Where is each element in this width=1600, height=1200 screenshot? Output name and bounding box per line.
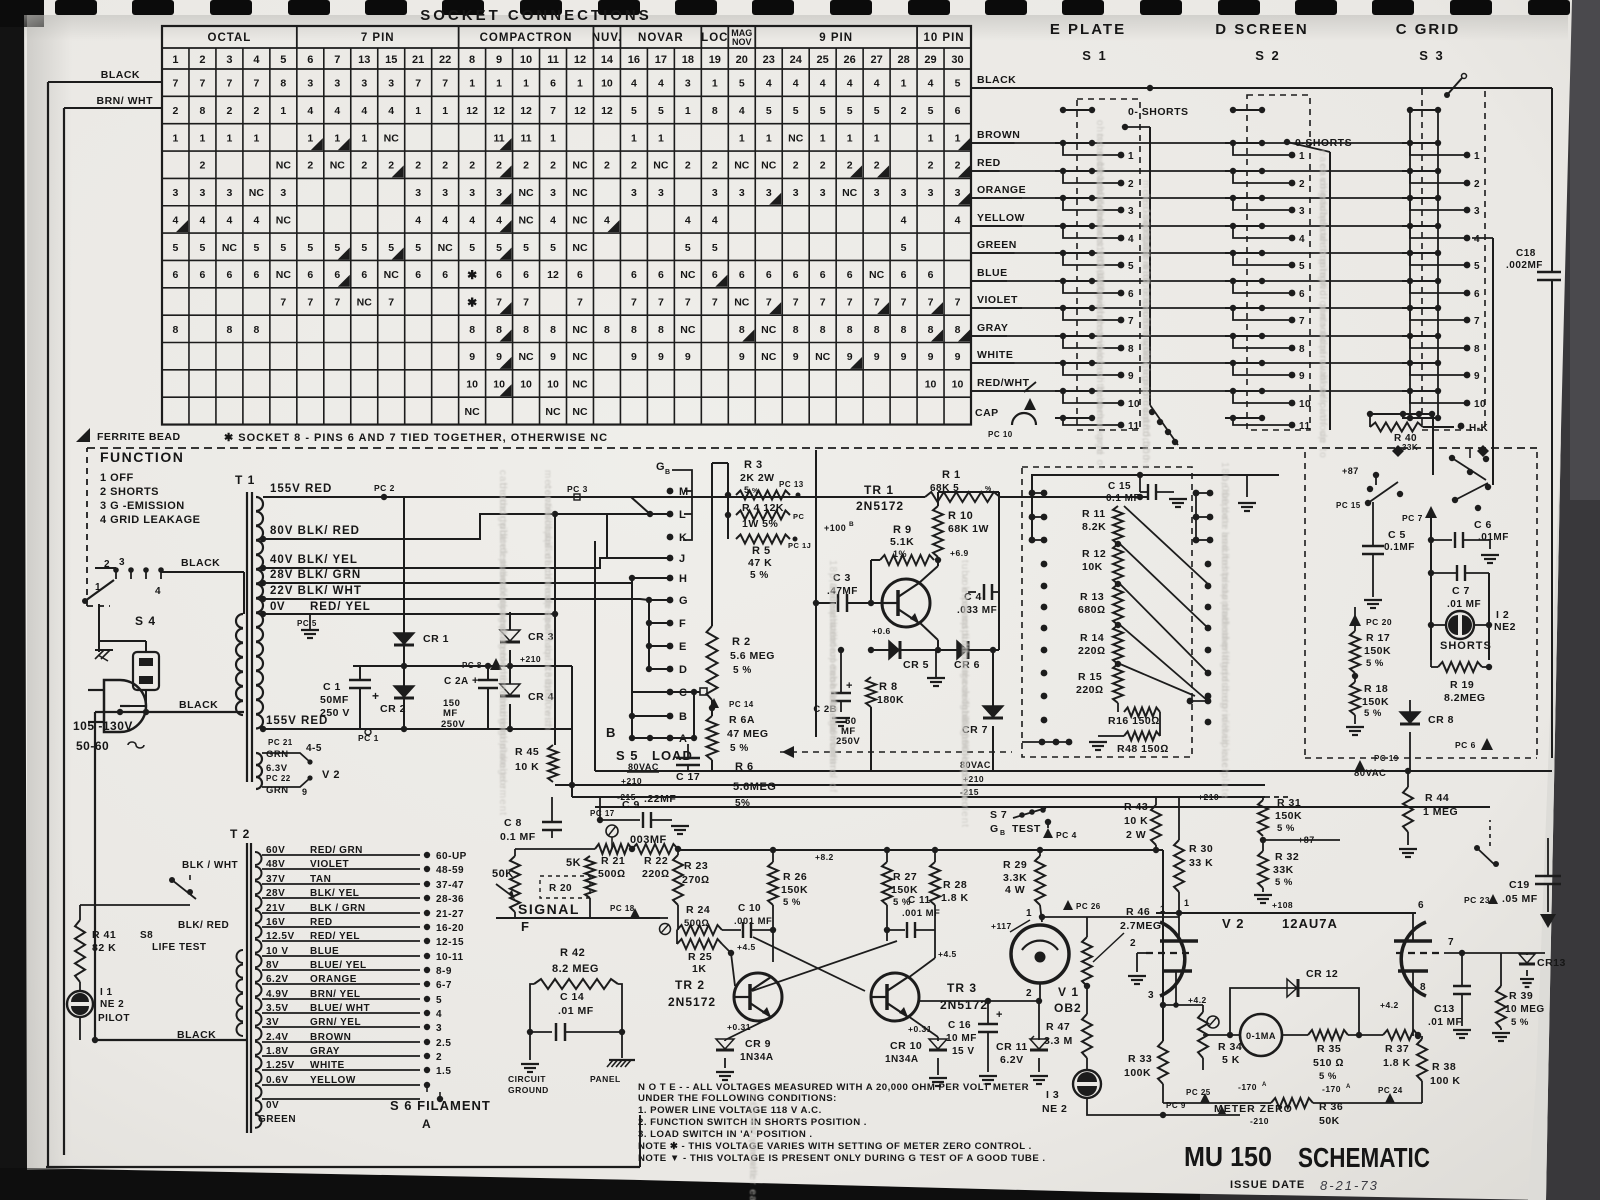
svg-text:150K: 150K: [781, 884, 808, 896]
svg-text:6: 6: [523, 269, 529, 281]
svg-text:PC 26: PC 26: [1076, 902, 1101, 911]
svg-text:R 3: R 3: [744, 459, 763, 471]
svg-text:BRN/ WHT: BRN/ WHT: [97, 95, 154, 107]
svg-text:GROUND: GROUND: [508, 1085, 549, 1095]
svg-text:R 25: R 25: [688, 951, 712, 963]
svg-text:2: 2: [415, 160, 421, 172]
svg-text:150K: 150K: [1275, 810, 1302, 822]
svg-text:BLK / WHT: BLK / WHT: [182, 860, 238, 871]
label PC19: [1355, 754, 1399, 770]
svg-text:1: 1: [658, 132, 664, 144]
svg-text:3: 3: [685, 78, 691, 90]
svg-text:+8.2: +8.2: [815, 852, 834, 862]
svg-text:28: 28: [897, 54, 909, 66]
svg-text:1.8 K: 1.8 K: [1383, 1057, 1411, 1069]
chassis ground at plug: [95, 650, 113, 661]
label 28V BLK/GRN: [270, 569, 361, 581]
resistor R46: [1082, 904, 1166, 989]
svg-text:12: 12: [547, 269, 559, 281]
svg-text:5: 5: [523, 242, 529, 254]
svg-text:7: 7: [766, 296, 772, 308]
svg-text:4: 4: [820, 78, 826, 90]
svg-text:4: 4: [631, 78, 637, 90]
label PC3: [567, 484, 588, 500]
wire tr1 base junction: [868, 560, 874, 606]
wire S5 wiper bus: [693, 692, 695, 738]
label PC23: [1464, 894, 1498, 905]
svg-text:3: 3: [631, 187, 637, 199]
meter 0-1MA: [1240, 1014, 1282, 1056]
svg-text:B: B: [606, 725, 616, 740]
svg-text:3: 3: [712, 187, 718, 199]
svg-text:2: 2: [820, 160, 826, 172]
svg-text:1: 1: [550, 132, 556, 144]
svg-text:NC: NC: [518, 214, 534, 226]
svg-text:PC 15: PC 15: [1336, 501, 1361, 510]
label SIGNAL F: [518, 901, 580, 934]
svg-text:BLACK: BLACK: [179, 699, 218, 711]
wire 50k pot: [515, 849, 595, 918]
svg-text:7: 7: [415, 78, 421, 90]
svg-text:NC: NC: [761, 160, 777, 172]
svg-text:.01MF: .01MF: [1478, 532, 1509, 543]
svg-text:PC 17: PC 17: [590, 809, 615, 818]
label S4: [135, 614, 156, 628]
svg-text:7: 7: [307, 296, 313, 308]
wires selector diagonals: [1120, 506, 1208, 701]
svg-text:3: 3: [820, 187, 826, 199]
resistor R27: [882, 850, 918, 941]
svg-text:7: 7: [200, 78, 206, 90]
svg-text:1: 1: [820, 132, 826, 144]
svg-text:1: 1: [847, 132, 853, 144]
label R11 8.2K: [1082, 508, 1106, 533]
svg-text:9: 9: [1299, 371, 1305, 382]
svg-text:BLACK: BLACK: [977, 74, 1016, 86]
svg-text:E PLATE: E PLATE: [1050, 21, 1126, 38]
svg-text:12: 12: [466, 105, 478, 117]
svg-text:S 1: S 1: [1082, 48, 1108, 63]
svg-text:10: 10: [952, 379, 964, 391]
svg-text:33 K: 33 K: [1189, 857, 1213, 869]
label issue date: [1230, 1178, 1379, 1193]
svg-text:6: 6: [226, 269, 232, 281]
diode CR1: [394, 633, 449, 645]
svg-text:PC 9: PC 9: [1166, 1101, 1186, 1110]
svg-text:6: 6: [766, 269, 772, 281]
svg-text:17: 17: [655, 54, 667, 66]
svg-text:C 7: C 7: [1452, 585, 1470, 597]
svg-text:2: 2: [928, 160, 934, 172]
svg-text:BLK/ RED: BLK/ RED: [178, 920, 229, 931]
wire S3 common: [1472, 238, 1493, 485]
switch S1 wiper chain: [1149, 405, 1178, 445]
wire S3 ladder: [1410, 110, 1438, 418]
resistor R23: [673, 849, 710, 905]
wire GRAY row: [971, 335, 1404, 337]
label PC20: [1349, 614, 1392, 627]
svg-text:8: 8: [604, 324, 610, 336]
svg-text:+108: +108: [1272, 900, 1293, 910]
resistor R24: [660, 904, 723, 935]
svg-text:3: 3: [901, 187, 907, 199]
svg-text:220Ω: 220Ω: [1078, 645, 1106, 657]
svg-text:6: 6: [955, 105, 961, 117]
svg-text:R 14: R 14: [1080, 632, 1104, 644]
svg-text:9: 9: [469, 351, 475, 363]
svg-text:10 MEG: 10 MEG: [1505, 1004, 1545, 1015]
capacitor C15: [1106, 472, 1187, 507]
svg-text:3: 3: [436, 1023, 442, 1034]
svg-text:155V RED: 155V RED: [266, 715, 328, 727]
svg-text:4: 4: [226, 214, 232, 226]
label R20 dashed: [540, 876, 590, 898]
svg-text:5: 5: [1474, 261, 1480, 272]
svg-text:25: 25: [817, 54, 829, 66]
svg-text:NC: NC: [276, 214, 292, 226]
svg-text:15 V: 15 V: [952, 1046, 975, 1057]
svg-text:NOV: NOV: [732, 37, 752, 47]
lamp I3 (NE2): [1042, 1058, 1101, 1115]
svg-text:+: +: [372, 689, 380, 703]
label 6.3V PC22 GRN: [266, 763, 340, 797]
wire 155v to R1: [631, 496, 925, 498]
svg-text:8: 8: [793, 324, 799, 336]
resistor R26: [768, 850, 808, 930]
svg-text:6: 6: [577, 269, 583, 281]
svg-text:1: 1: [415, 105, 421, 117]
svg-text:11: 11: [1128, 421, 1140, 432]
svg-text:2: 2: [388, 160, 394, 172]
diode CR6: [954, 641, 980, 671]
svg-text:5 %: 5 %: [1275, 877, 1293, 888]
svg-text:5 %: 5 %: [733, 665, 752, 676]
resistor R39: [1492, 953, 1545, 1041]
svg-text:A: A: [1262, 1082, 1267, 1088]
tube V2 right triode: [1394, 913, 1444, 996]
dashed rail top: [87, 447, 1537, 449]
svg-text:8: 8: [469, 54, 475, 66]
svg-text:4: 4: [604, 214, 610, 226]
svg-text:1K: 1K: [692, 963, 706, 975]
svg-text:3: 3: [1474, 206, 1480, 217]
switch S8 life test: [140, 860, 238, 953]
wire bottom left riser: [640, 1115, 648, 1167]
switch S1 bank contacts: [1055, 99, 1140, 432]
svg-text:2: 2: [496, 160, 502, 172]
label YELLOW (wire color): [971, 212, 1025, 226]
svg-text:6: 6: [361, 269, 367, 281]
svg-text:4: 4: [550, 214, 556, 226]
switch S2 bank contacts: [1225, 95, 1311, 432]
tube V1 (OB2): [991, 908, 1069, 999]
svg-text:2: 2: [685, 160, 691, 172]
diode CR10: [885, 1037, 947, 1086]
contact dots right column: [1187, 490, 1214, 726]
wire v1 pin2: [1039, 983, 1041, 1001]
svg-text:5: 5: [550, 242, 556, 254]
svg-text:1: 1: [631, 132, 637, 144]
svg-text:2: 2: [955, 160, 961, 172]
resistor R38: [1417, 1036, 1461, 1103]
resistor R30: [1174, 797, 1213, 916]
svg-text:GREEN: GREEN: [258, 1114, 296, 1125]
transformer T2 tap 21V: [262, 903, 464, 920]
svg-text:9: 9: [496, 351, 502, 363]
svg-text:4: 4: [334, 105, 340, 117]
svg-text:CR 10: CR 10: [890, 1040, 922, 1052]
svg-text:.001 MF: .001 MF: [734, 916, 772, 927]
svg-text:8.2K: 8.2K: [1082, 521, 1106, 533]
wire +210 rail: [555, 782, 1265, 788]
capacitor C4: [957, 584, 999, 616]
label WHITE (wire color): [971, 349, 1015, 363]
svg-text:6: 6: [307, 269, 313, 281]
svg-text:F: F: [521, 919, 529, 934]
svg-text:M: M: [679, 486, 689, 498]
wire plug to black bottom: [95, 690, 133, 717]
svg-text:R 44: R 44: [1425, 792, 1449, 804]
label +8.2: [815, 852, 834, 862]
resistor R3: [736, 459, 790, 500]
svg-text:7: 7: [631, 296, 637, 308]
heading E PLATE S1: [1050, 21, 1126, 63]
svg-text:R 24: R 24: [686, 904, 710, 916]
resistor R41: [75, 905, 190, 982]
label pin7: [1448, 937, 1454, 948]
svg-text:2: 2: [226, 105, 232, 117]
wire v2 pin7: [1444, 950, 1545, 956]
wire signal row: [496, 904, 660, 918]
svg-text:5.6 MEG: 5.6 MEG: [730, 650, 775, 662]
svg-text:6: 6: [820, 269, 826, 281]
svg-text:NOTE ▼ - THIS VOLTAGE IS PRESE: NOTE ▼ - THIS VOLTAGE IS PRESENT ONLY DU…: [638, 1153, 1046, 1164]
svg-text:29: 29: [924, 54, 936, 66]
svg-text:PANEL: PANEL: [590, 1074, 621, 1084]
svg-text:6: 6: [739, 269, 745, 281]
svg-text:4: 4: [200, 214, 206, 226]
svg-text:R48 150Ω: R48 150Ω: [1117, 743, 1169, 755]
svg-text:6: 6: [1418, 900, 1424, 911]
svg-text:PILOT: PILOT: [98, 1013, 130, 1024]
svg-text:R 28: R 28: [943, 879, 967, 891]
svg-text:ISSUE DATE: ISSUE DATE: [1230, 1179, 1305, 1191]
wire A row: [632, 735, 697, 741]
wire r17 branch: [1355, 675, 1410, 677]
svg-text:10: 10: [1128, 399, 1140, 410]
svg-text:1 MEG: 1 MEG: [1423, 806, 1458, 818]
svg-text:NC: NC: [680, 269, 696, 281]
label +100: [824, 521, 854, 533]
svg-text:PC 23: PC 23: [1464, 895, 1490, 905]
svg-text:5: 5: [685, 242, 691, 254]
capacitor C9: [600, 797, 689, 834]
label +108: [1272, 900, 1293, 910]
svg-text:7: 7: [173, 78, 179, 90]
svg-text:2: 2: [874, 160, 880, 172]
svg-text:10: 10: [1299, 399, 1311, 410]
svg-text:4: 4: [685, 214, 691, 226]
lamp I1 (NE2 pilot): [67, 982, 130, 1040]
svg-text:CR 12: CR 12: [1306, 968, 1338, 980]
svg-text:10 MF: 10 MF: [946, 1033, 977, 1044]
svg-text:5: 5: [766, 105, 772, 117]
svg-text:NC: NC: [384, 132, 400, 144]
svg-text:R 9: R 9: [893, 524, 912, 536]
svg-text:+87: +87: [1342, 466, 1359, 476]
svg-text:CR 2: CR 2: [380, 703, 406, 715]
label BLACK bottom left: [177, 1029, 216, 1041]
svg-text:24: 24: [790, 54, 803, 66]
wire R1 right: [1000, 494, 1147, 500]
resistor R25: [677, 930, 722, 975]
diode CR8: [1400, 676, 1454, 726]
svg-text:2: 2: [793, 160, 799, 172]
label MU 150 SCHEMATIC: [1184, 1141, 1430, 1173]
svg-text:-170: -170: [1322, 1084, 1341, 1094]
svg-text:5: 5: [847, 105, 853, 117]
transformer T2 tap 1.8V: [262, 1046, 442, 1063]
wire r2 top: [712, 463, 728, 626]
svg-text:+4.5: +4.5: [938, 949, 957, 959]
svg-text:R 35: R 35: [1317, 1043, 1341, 1055]
resistor R31: [1258, 797, 1302, 843]
svg-text:2N5172: 2N5172: [668, 995, 716, 1009]
svg-text:4: 4: [847, 78, 853, 90]
transformer T2 tap 16V: [262, 917, 464, 934]
svg-text:PC 10: PC 10: [988, 430, 1013, 439]
svg-text:1: 1: [523, 78, 529, 90]
svg-text:C 10: C 10: [738, 903, 761, 914]
label pin3: [1148, 990, 1154, 1001]
svg-text:.01 MF: .01 MF: [1447, 599, 1481, 610]
svg-text:NC: NC: [438, 242, 454, 254]
svg-text:A: A: [422, 1117, 431, 1131]
svg-text:2: 2: [550, 160, 556, 172]
svg-text:NC: NC: [572, 324, 588, 336]
svg-text:180K: 180K: [877, 694, 904, 706]
svg-text:PC 6: PC 6: [1455, 740, 1476, 750]
svg-text:9 PIN: 9 PIN: [819, 32, 853, 44]
svg-text:CR 11: CR 11: [996, 1041, 1028, 1053]
svg-text:each element: each element: [959, 756, 970, 828]
switch shorts wipers: [1365, 449, 1491, 511]
svg-text:NUV.: NUV.: [592, 32, 622, 44]
svg-text:3: 3: [1128, 206, 1134, 217]
svg-text:9: 9: [631, 351, 637, 363]
svg-text:plate plate: plate plate: [1219, 742, 1230, 799]
svg-text:40V BLK/ YEL: 40V BLK/ YEL: [270, 554, 358, 566]
svg-text:R 18: R 18: [1364, 683, 1388, 695]
svg-text:9: 9: [928, 351, 934, 363]
svg-text:12: 12: [520, 105, 532, 117]
svg-text:1.5: 1.5: [436, 1066, 451, 1077]
resistor R6: [700, 761, 776, 809]
wire black bottom: [95, 709, 244, 715]
transformer T2: [237, 843, 262, 1133]
svg-text:3: 3: [226, 187, 232, 199]
svg-text:2: 2: [253, 105, 259, 117]
label R14 220: [1078, 632, 1106, 657]
svg-text:50K: 50K: [1319, 1115, 1340, 1127]
svg-text:6-7: 6-7: [436, 980, 452, 991]
wire +100 line: [813, 450, 819, 737]
label 40V BLK/YEL: [270, 554, 358, 566]
svg-text:1N34A: 1N34A: [740, 1052, 774, 1063]
svg-text:NC: NC: [249, 187, 265, 199]
svg-text:S 2: S 2: [1255, 48, 1281, 63]
svg-text:V 2: V 2: [322, 769, 340, 781]
diode CR4: [500, 684, 554, 729]
transformer T1: [236, 492, 263, 782]
svg-text:2 SHORTS: 2 SHORTS: [100, 486, 159, 498]
svg-text:5: 5: [436, 995, 442, 1006]
svg-text:5: 5: [712, 242, 718, 254]
svg-text:4: 4: [955, 214, 961, 226]
svg-text:4 GRID LEAKAGE: 4 GRID LEAKAGE: [100, 514, 201, 526]
wire s7 to v1: [1047, 822, 1049, 849]
svg-text:R 29: R 29: [1003, 859, 1027, 871]
svg-text:5: 5: [415, 242, 421, 254]
svg-text:4: 4: [253, 54, 260, 66]
svg-text:7: 7: [388, 296, 394, 308]
socket connections table grid: [162, 26, 971, 425]
svg-text:10: 10: [520, 379, 532, 391]
svg-text:1: 1: [928, 132, 934, 144]
svg-text:5 %: 5 %: [1364, 708, 1382, 719]
svg-text:1: 1: [1184, 898, 1190, 908]
svg-text:3: 3: [928, 187, 934, 199]
svg-text:PC 24: PC 24: [1378, 1086, 1403, 1095]
ac plug: [88, 680, 146, 732]
svg-text:+4.5: +4.5: [737, 942, 756, 952]
svg-text:5.6MEG: 5.6MEG: [733, 781, 776, 793]
svg-text:R 2: R 2: [732, 636, 751, 648]
wire BLUE row: [971, 280, 1404, 282]
svg-text:R 42: R 42: [560, 947, 585, 959]
svg-text:G: G: [656, 461, 665, 473]
svg-text:0.1 MF: 0.1 MF: [1106, 493, 1140, 504]
label V1 OB2: [1054, 985, 1082, 1015]
label +87 top: [1342, 466, 1379, 478]
svg-text:2: 2: [604, 160, 610, 172]
svg-text:R 22: R 22: [644, 855, 668, 867]
svg-text:4: 4: [496, 214, 502, 226]
resistor R48: [1089, 712, 1169, 755]
svg-text:10: 10: [601, 78, 613, 90]
svg-text:5 %: 5 %: [1366, 658, 1384, 669]
svg-text:PC 22: PC 22: [266, 774, 291, 783]
svg-text:C 17: C 17: [676, 771, 700, 783]
svg-text:3: 3: [550, 187, 556, 199]
svg-text:155V RED: 155V RED: [270, 483, 332, 495]
svg-text:27: 27: [870, 54, 882, 66]
svg-text:C 11: C 11: [908, 895, 931, 906]
svg-text:K: K: [679, 532, 687, 544]
svg-text:.001 MF: .001 MF: [902, 908, 940, 919]
svg-text:NC: NC: [572, 187, 588, 199]
wire v1 r33 link: [987, 997, 989, 1001]
wire v1 top: [1039, 914, 1087, 920]
svg-text:150K: 150K: [1364, 645, 1391, 657]
label +210 C17: [621, 776, 642, 786]
svg-text:%: %: [752, 488, 759, 495]
switch S3 wiper arm: [1444, 74, 1467, 99]
svg-text:8: 8: [658, 324, 664, 336]
svg-text:9: 9: [847, 351, 853, 363]
svg-text:R 19: R 19: [1450, 679, 1474, 691]
svg-text:68K 1W: 68K 1W: [948, 523, 989, 535]
